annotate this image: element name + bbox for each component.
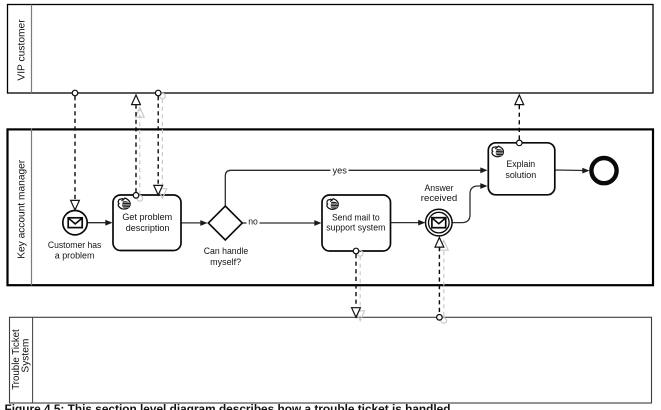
svg-text:Get problem: Get problem	[122, 212, 172, 223]
svg-text:support system: support system	[326, 223, 385, 234]
svg-text:solution: solution	[505, 170, 536, 181]
task Get problem description hand icon	[118, 198, 130, 209]
message flow M2 arrowhead (up)	[132, 95, 141, 105]
message flow M4 source circle	[517, 140, 523, 146]
svg-text:Key account manager: Key account manager	[17, 159, 28, 259]
svg-text:Customer has: Customer has	[48, 240, 102, 251]
sequence flow: start event to Get problem description (wire)	[88, 222, 107, 224]
lane Key account manager	[8, 129, 654, 285]
message flow M5 source circle	[353, 248, 359, 254]
message flow M3: VIP customer to Get problem description (wire)	[157, 96, 159, 186]
lane Trouble Ticket System header divider	[32, 317, 34, 403]
svg-text:description: description	[126, 223, 170, 234]
message flow M2 source circle	[133, 193, 139, 199]
svg-text:System: System	[20, 339, 31, 373]
message flow M3 arrowhead	[154, 185, 163, 195]
message flow M1: VIP customer to start event (wire)	[74, 96, 76, 201]
lane Trouble Ticket System	[10, 317, 652, 403]
message flow M6 arrowhead (up)	[435, 238, 444, 248]
svg-text:Can handle: Can handle	[204, 246, 249, 257]
lane VIP customer	[8, 5, 654, 94]
task Explain solution	[488, 143, 555, 195]
message flow M2: Get problem description to VIP customer (wire)	[135, 105, 137, 193]
message flow M1 arrowhead	[71, 200, 80, 210]
task Send mail to support system	[322, 195, 391, 251]
svg-text:myself?: myself?	[210, 257, 241, 268]
start event envelope icon	[68, 218, 82, 228]
message flow M5: Send mail to support system to Trouble Ticket System (wire)	[355, 254, 357, 308]
end event	[591, 158, 616, 183]
sequence flow: gateway to Explain solution, label yes (wire)	[225, 170, 481, 205]
gateway Can handle myself?	[208, 206, 242, 240]
intermediate event envelope icon	[432, 218, 446, 228]
svg-text:no: no	[248, 217, 258, 228]
intermediate message event inner circle	[429, 212, 450, 233]
svg-text:VIP customer: VIP customer	[17, 19, 28, 81]
sequence flow: gateway to Send mail to support system, label no (wire)	[243, 222, 247, 224]
message flow M3 source circle	[155, 90, 161, 96]
task Get problem description	[113, 195, 181, 251]
message flow M6 gray shadow (wire)	[443, 251, 445, 318]
message flow M2 gray shadow (wire)	[139, 107, 141, 196]
svg-text:Figure 4.5: This section level: Figure 4.5: This section level diagram d…	[5, 404, 451, 410]
intermediate message event Answer received outer circle	[426, 209, 453, 236]
sequence flow: Explain solution to end event (wire)	[555, 169, 584, 172]
start event: Customer has a problem	[63, 211, 87, 235]
task Send mail to support system hand icon	[327, 199, 338, 210]
sequence flow: Send mail to support system to Answer received (wire)	[391, 222, 420, 224]
sequence flow: Get problem description to gateway (wire)	[182, 222, 202, 224]
message flow M5 gray shadow (wire)	[359, 256, 361, 311]
message flow M5 arrowhead	[352, 308, 361, 318]
svg-text:yes: yes	[333, 165, 348, 176]
svg-text:received: received	[421, 193, 457, 204]
svg-text:Explain: Explain	[506, 159, 535, 170]
message flow M6: Trouble Ticket System to Answer received (wire)	[438, 247, 440, 314]
lane Key account manager header divider	[31, 129, 33, 286]
sequence flow: Answer received to Explain solution (wire)	[452, 186, 481, 223]
message flow M4: Explain solution to VIP customer (wire)	[518, 105, 520, 140]
message flow M3 gray shadow (wire)	[161, 99, 163, 188]
message flow M4 arrowhead (up)	[515, 95, 524, 105]
message flow M1 source circle	[72, 90, 78, 96]
message flow M6 source circle	[437, 315, 443, 321]
lane VIP customer header divider	[31, 5, 33, 94]
task Explain solution hand icon	[492, 146, 503, 157]
svg-text:a problem: a problem	[55, 250, 95, 261]
